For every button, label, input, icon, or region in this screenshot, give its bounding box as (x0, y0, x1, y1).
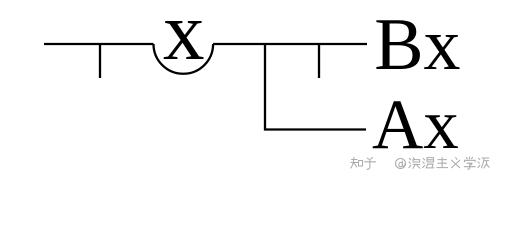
wire: main horizontal right segment (213, 43, 367, 45)
wire hop arc under node x (154, 44, 214, 74)
svg-text:x: x (163, 0, 205, 77)
svg-text:Ax: Ax (372, 86, 459, 164)
svg-text:Bx: Bx (374, 4, 460, 86)
tick mark 2 (318, 44, 320, 78)
wire: main horizontal left segment (44, 43, 154, 45)
wire: L-shaped branch to Ax (265, 44, 366, 130)
tick mark 1 (99, 44, 101, 78)
